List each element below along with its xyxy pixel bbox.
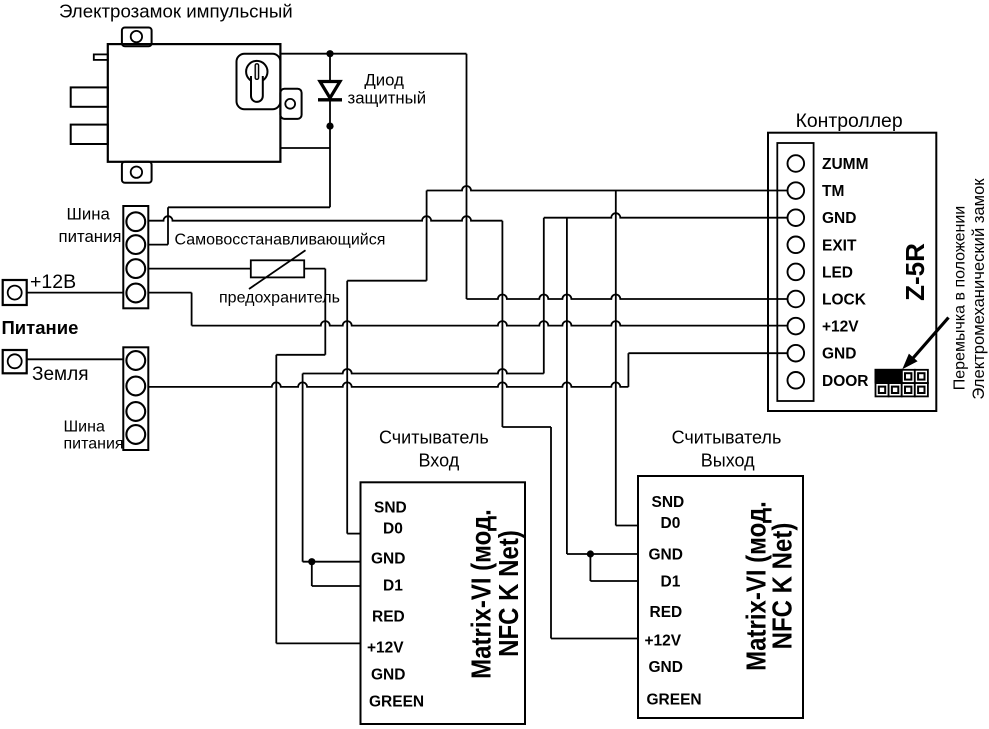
controller terminal GND	[788, 345, 805, 362]
wire: TM line	[427, 186, 787, 191]
wire: +12V input to bus	[27, 292, 124, 294]
wire: into reader1 GND	[303, 561, 361, 563]
svg-text:+12V: +12V	[645, 632, 682, 649]
wire: t1 drop	[501, 221, 503, 427]
svg-text:NFC K Net): NFC K Net)	[768, 523, 798, 650]
junction dot reader1 GND	[308, 558, 315, 565]
wire: earth to lower bus	[27, 358, 124, 360]
upper power bus block	[123, 206, 148, 308]
wire: reader2 D0 drop	[615, 191, 617, 526]
svg-text:Питание: Питание	[2, 317, 79, 338]
wire: TM drop	[426, 191, 428, 281]
jumper pin header	[902, 370, 915, 383]
wire: into controller GND2	[628, 352, 787, 354]
wire: reader1 +12V drop	[275, 355, 277, 644]
lower bus terminal 2	[126, 377, 145, 396]
jumper arrow	[911, 318, 949, 362]
svg-text:Самовосстанавливающийся: Самовосстанавливающийся	[175, 232, 386, 249]
svg-text:предохранитель: предохранитель	[219, 290, 340, 307]
wire: bus t1 rail	[148, 216, 502, 221]
controller terminal GND	[788, 209, 805, 226]
svg-text:Шина: Шина	[67, 205, 111, 224]
+12V input terminal	[3, 280, 27, 305]
svg-text:GND: GND	[649, 659, 683, 676]
svg-text:Электромеханический замок: Электромеханический замок	[969, 178, 988, 400]
svg-text:GND: GND	[371, 667, 405, 684]
svg-text:GND: GND	[371, 551, 405, 568]
lower bus terminal 1	[126, 351, 145, 370]
controller terminal ZUMM	[788, 155, 805, 172]
upper bus terminal 4	[126, 284, 145, 303]
wire: GND drop A	[543, 218, 545, 374]
controller terminal TM	[788, 182, 805, 199]
wire: TM jog	[347, 280, 426, 282]
diode vertical wire	[329, 54, 331, 208]
wire: into reader2 D0	[616, 525, 638, 527]
controller terminal LED	[788, 264, 805, 281]
wire: into bus terminal 2	[148, 244, 168, 246]
svg-text:NFC K Net): NFC K Net)	[495, 530, 525, 657]
reader2 box	[638, 476, 803, 718]
svg-text:Контроллер: Контроллер	[796, 110, 903, 132]
controller terminal strip	[777, 143, 813, 401]
wire: +12V down	[191, 293, 193, 326]
wire: +12V rail to controller	[192, 321, 787, 325]
wire: diode bottom to bus	[168, 206, 330, 208]
svg-text:Шина: Шина	[64, 419, 105, 436]
svg-text:RED: RED	[372, 609, 405, 626]
electric lock body	[108, 44, 281, 162]
junction dot diode bottom	[326, 123, 333, 130]
jumper cap (black)	[875, 369, 903, 384]
lock top mounting tab	[122, 28, 152, 47]
controller terminal +12V	[788, 318, 805, 335]
wire: lock right to diode	[281, 147, 330, 149]
svg-text:GND: GND	[649, 547, 683, 564]
wire: reader2 GND drop	[566, 218, 568, 554]
svg-text:SND: SND	[652, 494, 685, 511]
label: Matrix-VI reader1	[467, 509, 497, 679]
svg-text:Земля: Земля	[32, 364, 88, 385]
svg-text:D1: D1	[661, 573, 681, 590]
wire: bus t4 out	[148, 292, 191, 294]
lower bus terminal 4	[126, 425, 145, 444]
svg-text:+12V: +12V	[822, 319, 859, 336]
wire: t1 jog	[502, 426, 551, 428]
svg-text:защитный: защитный	[348, 89, 427, 108]
wire: ground rail	[148, 382, 628, 387]
wire: reader1 D0 drop	[346, 281, 348, 534]
svg-text:Считыватель: Считыватель	[379, 428, 489, 448]
svg-text:LOCK: LOCK	[822, 292, 867, 309]
svg-text:ZUMM: ZUMM	[822, 156, 869, 173]
wire: controller GND line	[544, 213, 787, 218]
svg-text:LED: LED	[822, 264, 853, 281]
controller terminal DOOR	[788, 372, 805, 389]
svg-text:GND: GND	[822, 210, 856, 227]
svg-text:EXIT: EXIT	[822, 237, 857, 254]
wire: ground rail riser	[627, 353, 629, 387]
lock right tab	[280, 89, 301, 119]
wire: into reader1 D0	[347, 533, 360, 535]
wire: reader1 D1 jog	[311, 562, 313, 586]
wire: fuse branch left	[276, 354, 325, 356]
upper bus terminal 1	[126, 212, 145, 231]
svg-text:TM: TM	[822, 183, 844, 200]
wire: into reader2 +12V	[551, 638, 638, 640]
protective diode VD1	[320, 82, 340, 99]
svg-text:Электрозамок импульсный: Электрозамок импульсный	[59, 1, 293, 22]
svg-text:+12В: +12В	[30, 271, 76, 293]
wire: into reader1 +12V	[276, 642, 360, 644]
svg-text:D0: D0	[383, 521, 403, 538]
Earth input terminal	[3, 350, 27, 373]
wire: reader2 D1 jog	[589, 554, 591, 581]
lower bus terminal 3	[126, 402, 145, 421]
svg-text:GREEN: GREEN	[369, 694, 424, 711]
junction dot diode top	[326, 50, 333, 57]
controller terminal LOCK	[788, 291, 805, 308]
controller terminal EXIT	[788, 237, 805, 254]
controller U1 box	[768, 133, 936, 411]
wire: into reader2 GND	[567, 553, 638, 555]
svg-text:Диод: Диод	[364, 70, 404, 89]
wire: fuse drop	[324, 269, 326, 355]
lower power bus block	[123, 347, 148, 450]
upper bus terminal 2	[126, 235, 145, 254]
svg-text:питания: питания	[59, 227, 122, 246]
lock left prong 1	[71, 87, 108, 106]
label: Matrix-VI reader2	[742, 501, 772, 671]
wire: into reader2 D1	[590, 580, 638, 582]
junction dot reader2 GND	[587, 550, 594, 557]
svg-text:Перемычка в положении: Перемычка в положении	[952, 206, 969, 390]
wire: lock top to corner	[280, 53, 466, 55]
lock left small prong	[94, 54, 108, 60]
svg-text:Вход: Вход	[419, 451, 460, 471]
wire: fuse to corner	[304, 268, 325, 270]
svg-text:Считыватель: Считыватель	[672, 428, 782, 448]
svg-text:DOOR: DOOR	[822, 373, 869, 390]
svg-text:Выход: Выход	[701, 451, 755, 471]
lock left prong 2	[71, 125, 108, 144]
self-resetting fuse F1	[251, 260, 304, 277]
svg-text:Z-5R: Z-5R	[900, 243, 930, 301]
upper bus terminal 3	[126, 259, 145, 278]
svg-text:SND: SND	[374, 500, 407, 517]
lock bottom mounting tab	[122, 162, 152, 183]
svg-text:RED: RED	[650, 604, 683, 621]
svg-text:D1: D1	[383, 578, 403, 595]
wire: vertical to bus terminal 2	[167, 207, 169, 244]
wire: into reader1 D1	[312, 585, 361, 587]
svg-text:питания: питания	[64, 436, 124, 453]
svg-text:GND: GND	[822, 346, 856, 363]
wire: bus t3 to fuse	[148, 268, 251, 270]
svg-text:Matrix-VI (мод.: Matrix-VI (мод.	[467, 509, 497, 679]
svg-text:+12V: +12V	[367, 640, 404, 657]
wire: to controller LOCK	[467, 295, 788, 300]
wire: lock drop	[466, 54, 468, 299]
svg-text:GREEN: GREEN	[647, 692, 702, 709]
wire: reader1 GND drop	[302, 374, 304, 562]
wire: GND crossbar	[303, 369, 544, 374]
reader1 box	[361, 482, 526, 724]
lock key cylinder	[246, 61, 267, 82]
wire: reader2 +12V drop	[550, 427, 552, 639]
lock cylinder plate	[237, 54, 281, 110]
svg-text:D0: D0	[661, 515, 681, 532]
